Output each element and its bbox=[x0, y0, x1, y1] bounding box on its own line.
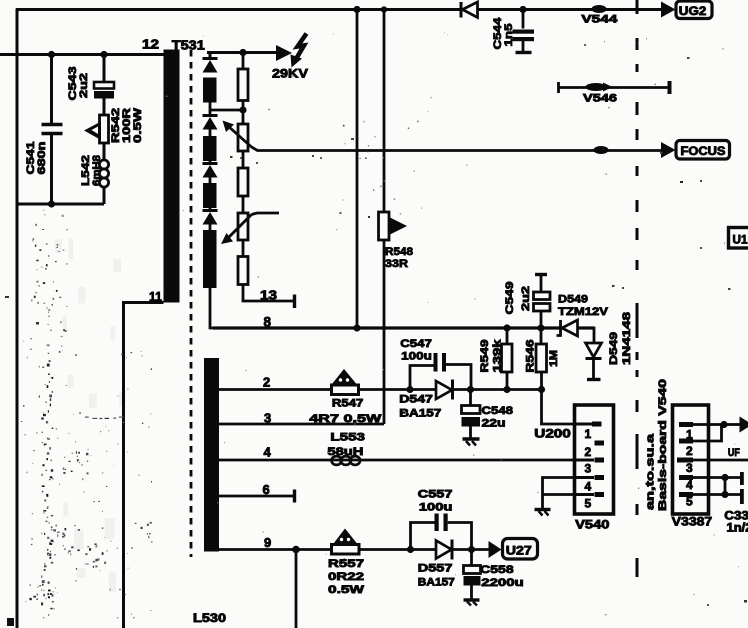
pin 3 stub bbox=[576, 459, 594, 462]
diode HV D-b bbox=[203, 110, 218, 136]
wire pin11 bbox=[124, 303, 164, 628]
transformer secondary bar bbox=[204, 358, 219, 552]
wire C543 top lead bbox=[103, 55, 106, 83]
svg-text:4: 4 bbox=[686, 478, 693, 492]
U27 arrow bbox=[489, 541, 502, 558]
wire tap3 net bbox=[219, 423, 384, 426]
svg-text:12: 12 bbox=[142, 38, 159, 52]
diode D549 1N4148 bbox=[586, 343, 602, 357]
svg-text:2: 2 bbox=[585, 445, 592, 459]
resistor bleeder bottom bbox=[238, 257, 248, 285]
svg-text:L530: L530 bbox=[193, 613, 226, 625]
node junction dots top-left bbox=[48, 51, 55, 58]
svg-text:BA157: BA157 bbox=[418, 577, 455, 589]
wire C541 bottom lead bbox=[50, 135, 53, 204]
arrow out pin1 bbox=[724, 423, 740, 426]
wire R546 to V540 pin1 bbox=[542, 390, 575, 425]
svg-text:L553: L553 bbox=[330, 432, 365, 444]
svg-text:6mH8: 6mH8 bbox=[91, 155, 103, 186]
wire tap9 down feed bbox=[295, 550, 298, 628]
wire tap6 stub bbox=[219, 495, 295, 498]
winding segment 3 bbox=[203, 183, 217, 208]
pin 4 bbox=[679, 475, 693, 480]
inductor L553 bbox=[332, 456, 361, 465]
pin 2 stub bbox=[595, 441, 605, 446]
potentiometer screen bbox=[238, 213, 248, 240]
capacitor C548 bbox=[467, 386, 474, 393]
capacitor C558 bbox=[468, 546, 475, 553]
resistor R542 bbox=[100, 115, 109, 143]
svg-text:100u: 100u bbox=[419, 502, 453, 514]
wire V540 pins 4-5 ground bbox=[543, 478, 575, 509]
svg-text:5: 5 bbox=[585, 497, 592, 511]
potentiometer focus bbox=[238, 124, 248, 151]
svg-text:1: 1 bbox=[585, 427, 592, 441]
transformer T531 primary bar bbox=[164, 50, 180, 303]
wire top border / UG2 net bbox=[16, 8, 461, 11]
diode D557 bbox=[436, 541, 452, 559]
svg-text:1M: 1M bbox=[548, 350, 560, 367]
svg-text:C547: C547 bbox=[400, 338, 432, 350]
capacitor C547 bbox=[406, 386, 413, 393]
svg-text:2u2: 2u2 bbox=[520, 286, 532, 311]
svg-text:V544: V544 bbox=[581, 14, 618, 26]
svg-text:UG2: UG2 bbox=[679, 6, 707, 18]
capacitor C549 bbox=[535, 273, 547, 276]
wire cascade tap 1 bbox=[210, 103, 243, 111]
svg-text:0.5W: 0.5W bbox=[328, 584, 365, 596]
wire focus net bbox=[252, 147, 662, 151]
capacitor C541 bbox=[42, 125, 63, 134]
svg-text:2: 2 bbox=[263, 375, 270, 390]
connector V3387 bbox=[673, 405, 709, 514]
svg-text:2200u: 2200u bbox=[481, 577, 523, 589]
svg-text:R549: R549 bbox=[479, 340, 491, 373]
FOCUS box bbox=[676, 141, 730, 160]
winding segment 1 bbox=[203, 78, 217, 103]
svg-text:U1: U1 bbox=[733, 235, 748, 247]
svg-text:UF: UF bbox=[728, 447, 740, 459]
svg-text:139k: 139k bbox=[492, 338, 504, 372]
svg-text:TZM12V: TZM12V bbox=[558, 306, 609, 318]
svg-text:C557: C557 bbox=[418, 489, 453, 501]
diode HV D-c bbox=[203, 161, 218, 183]
diode D549 zener bbox=[557, 320, 578, 336]
resistor R557 bbox=[332, 545, 360, 555]
winding segment 2 bbox=[203, 136, 217, 161]
29KV arrow bbox=[276, 45, 292, 61]
svg-text:R546: R546 bbox=[525, 340, 537, 373]
svg-text:C338: C338 bbox=[724, 511, 748, 523]
capacitor C557 bbox=[407, 546, 414, 553]
svg-text:2u2: 2u2 bbox=[78, 73, 90, 98]
svg-text:3: 3 bbox=[585, 462, 592, 476]
wire pin13 bbox=[243, 285, 295, 302]
svg-text:an,to.su.a: an,to.su.a bbox=[645, 433, 657, 510]
lightning bolt bbox=[296, 34, 307, 60]
pin 1 bbox=[679, 422, 693, 427]
diode D547 bbox=[436, 381, 452, 399]
svg-text:R557: R557 bbox=[328, 558, 364, 570]
board boundary dashed line bbox=[636, 0, 639, 577]
ground V540 bbox=[535, 508, 551, 511]
diode V544 rectifier bbox=[461, 2, 478, 18]
diode HV D-d bbox=[203, 208, 218, 230]
svg-text:680n: 680n bbox=[36, 141, 48, 174]
svg-text:22u: 22u bbox=[482, 418, 506, 430]
jumper V546 bbox=[559, 81, 670, 94]
svg-text:1n5: 1n5 bbox=[503, 24, 515, 47]
transformer core dashed line bbox=[190, 50, 193, 557]
svg-text:D549: D549 bbox=[608, 332, 620, 365]
diode HV D-a bbox=[203, 59, 218, 73]
svg-text:U200: U200 bbox=[534, 429, 571, 441]
svg-text:C549: C549 bbox=[504, 282, 516, 315]
wire pin4-pin5 join bbox=[724, 478, 727, 495]
node V544 measuring dot bbox=[592, 5, 607, 13]
wire HV cascade top bbox=[207, 51, 276, 54]
svg-text:C548: C548 bbox=[482, 405, 514, 417]
focus arrow bbox=[661, 142, 676, 158]
wire cascade bottom to pin 8 bbox=[210, 288, 215, 328]
UG2 box bbox=[676, 1, 712, 19]
svg-text:2: 2 bbox=[686, 444, 693, 458]
svg-text:BA157: BA157 bbox=[399, 408, 441, 420]
svg-text:11: 11 bbox=[149, 290, 162, 304]
capacitor C543 bbox=[94, 82, 114, 89]
wire pin8 net bbox=[213, 326, 594, 329]
wire UG2 vertical feed bbox=[356, 10, 359, 329]
U27 box bbox=[503, 539, 538, 560]
wire C541 top lead bbox=[50, 55, 53, 124]
svg-text:U27: U27 bbox=[506, 546, 532, 558]
pin 3 / UF net bbox=[677, 458, 693, 463]
wire tap2 net bbox=[219, 388, 332, 391]
resistor R547 bbox=[332, 385, 359, 395]
wire tap4 / V540 pin3 net bbox=[219, 459, 574, 462]
svg-text:9: 9 bbox=[264, 535, 271, 550]
ground C548 bbox=[463, 437, 480, 440]
node focus measuring dot bbox=[594, 146, 609, 154]
svg-text:5: 5 bbox=[686, 495, 693, 509]
resistor R546 bbox=[540, 328, 543, 344]
svg-text:V3387: V3387 bbox=[672, 515, 713, 529]
svg-text:D557: D557 bbox=[418, 563, 453, 575]
svg-text:1N4148: 1N4148 bbox=[621, 312, 633, 365]
svg-text:4: 4 bbox=[264, 445, 272, 460]
svg-text:C558: C558 bbox=[480, 564, 513, 576]
svg-text:100u: 100u bbox=[401, 351, 432, 363]
node pin1-2 junction bbox=[720, 421, 727, 428]
UG2 arrow bbox=[661, 2, 676, 18]
svg-text:1n/2: 1n/2 bbox=[727, 523, 748, 535]
wire C543-R542 link bbox=[103, 99, 106, 116]
inductor L542 bbox=[99, 160, 108, 187]
svg-text:13: 13 bbox=[260, 289, 277, 303]
wire bottom-left return bbox=[17, 203, 104, 206]
wire R548 column bbox=[383, 10, 386, 213]
svg-text:R548: R548 bbox=[385, 246, 413, 258]
svg-text:T531: T531 bbox=[172, 39, 205, 53]
svg-text:D549: D549 bbox=[558, 294, 588, 306]
wire zener to D549 bbox=[578, 328, 595, 342]
svg-text:R547: R547 bbox=[332, 398, 364, 410]
pin 2 bbox=[679, 439, 693, 444]
wire pin12 horizontal bbox=[0, 53, 164, 56]
U1 box bbox=[729, 228, 748, 249]
pin 1 stub bbox=[576, 423, 594, 426]
connector V540 bbox=[575, 405, 614, 514]
capacitor C544 bbox=[519, 6, 526, 13]
svg-text:3: 3 bbox=[686, 461, 693, 475]
svg-text:0R22: 0R22 bbox=[328, 571, 364, 583]
svg-text:V546: V546 bbox=[583, 93, 617, 105]
svg-text:29KV: 29KV bbox=[272, 67, 308, 81]
svg-text:4: 4 bbox=[585, 480, 592, 494]
wire tap9 net bbox=[219, 548, 332, 551]
pin 5 stub bbox=[576, 493, 594, 496]
svg-text:FOCUS: FOCUS bbox=[681, 146, 726, 158]
svg-text:D547: D547 bbox=[399, 394, 433, 406]
pin 4 stub bbox=[576, 476, 594, 479]
resistor R548 bbox=[379, 212, 390, 240]
resistor R549 bbox=[503, 324, 510, 331]
wire L542 bottom lead bbox=[103, 187, 106, 204]
pin 5 bbox=[679, 492, 693, 497]
winding segment 4 bbox=[203, 230, 217, 288]
wire left border vertical bbox=[16, 9, 19, 628]
svg-text:0.5W: 0.5W bbox=[132, 107, 144, 143]
svg-text:V540: V540 bbox=[575, 518, 610, 532]
svg-text:33R: 33R bbox=[385, 258, 408, 270]
svg-text:Basis-board V540: Basis-board V540 bbox=[657, 379, 669, 511]
wire R542-L542 link bbox=[103, 143, 106, 160]
resistor bleeder mid bbox=[238, 168, 248, 196]
resistor bleeder top bbox=[242, 53, 245, 70]
wire screen pot wiper bbox=[252, 213, 280, 215]
